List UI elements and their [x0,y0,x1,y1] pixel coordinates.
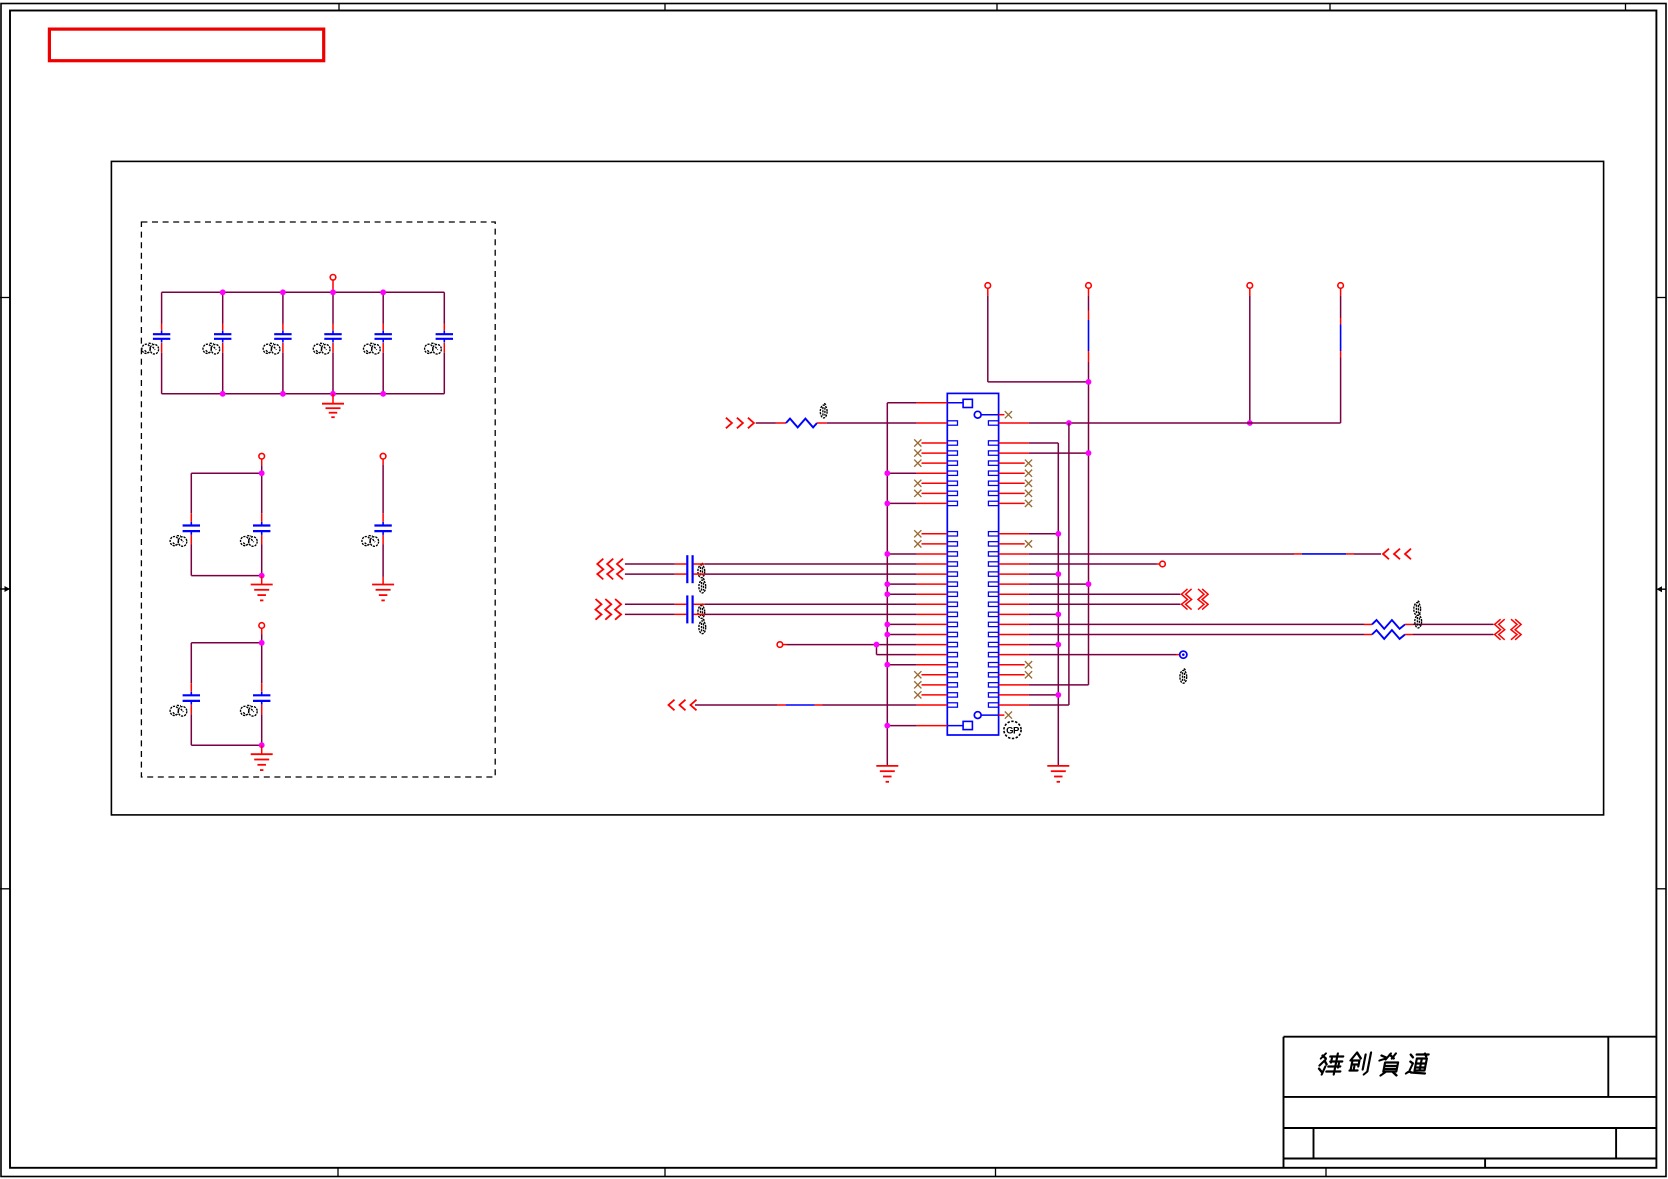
junction - bottom square pin [884,723,890,729]
bypass capacitor group outline (dashed) [141,222,495,777]
power port P1 (red circle) [330,275,336,281]
capacitor C9 [382,513,384,522]
wire - row443 right to bus1058 [999,442,1029,444]
junction - row423 x v1069 [1066,420,1072,426]
power port VCC port 4 (red circle) [1338,283,1344,289]
wire - R1 to connector pin (row 423 left) [827,422,917,424]
capacitor C14 (series, plates) [686,595,688,623]
wires - right pins tied to bus1058 (with junctions) [999,533,1029,535]
off-page double arrow pair (rows 624/634) [1495,619,1501,640]
wire - pair1 net B [625,573,675,575]
junction - pair top [259,470,265,476]
no-connect X bottom round pin [999,714,1005,716]
title block [1284,1036,1657,1038]
wire - cap group1 bottom bus [162,393,445,395]
wire - port1 rail [987,296,989,382]
wire - row584 right to v1088 [999,583,1029,585]
port (red circle) row 645 [777,642,783,648]
junction - jog [874,642,880,648]
wire - row705 right to v1069 corner [999,704,1029,706]
left ground bus (vertical) [886,403,888,766]
resistor R2 (0 ohm) [1372,620,1405,629]
no-connect X marks - left pins [922,442,948,444]
wire - pair bottom [191,744,261,746]
junction - port3 to row423 [1247,420,1253,426]
capacitor C5 [382,292,384,323]
power port (red circle) [259,623,265,629]
wire - row604 to off-page [999,603,1029,605]
power port (red circle) [259,453,265,459]
power port P3 (red circle) [380,453,386,459]
port (blue circled dot) row 655 [1180,651,1187,658]
wire - row554 to off-page [999,553,1029,555]
wire - row564 to port [999,563,1029,565]
resistor R1 (0 ohm) [786,419,817,428]
wire - port4 rail (with blue net segment) [1340,296,1342,318]
wire - pair2 net B to pin [694,613,706,615]
wire - row685 right to v1088 corner [999,684,1029,686]
capacitor C12/C13 labels [698,563,705,578]
junctions - cap group1 buses [220,289,226,295]
wire - R3 to off-page [1413,634,1494,636]
no-connect X marks - right pins rows 463-504 [999,462,1025,464]
resistor R2/R3 labels [1414,601,1421,616]
off-page arrow <<< (row 554) [1383,549,1389,560]
capacitor C12 (series, plates) [686,555,688,583]
wire - row453 right to v1088 [999,452,1029,454]
wire - row423 right run [999,422,1029,424]
svg-text:GP: GP [1006,726,1020,737]
wire - R2 to off-page [1413,623,1494,625]
left centering arrow [0,586,10,592]
power port VCC port 3 (red circle) [1247,283,1253,289]
junction - pair bottom [259,742,265,748]
sheet zone ticks [338,4,340,11]
wire - pair bottom [191,575,261,577]
wire - pair1 net B to pin [694,573,706,575]
capacitor C4 [332,292,334,323]
no-connect X top round pin [999,414,1005,416]
wire - cap group1 top bus [162,291,445,293]
GP marker [1004,721,1021,738]
wire - pair top [191,472,261,474]
off-page arrow <<< (row 705) [669,700,675,711]
wire - row594 to off-page [999,593,1029,595]
off-page double arrow pair (rows 594/604) [1182,589,1188,610]
resistor R3 (0 ohm) [1372,630,1405,639]
wire - port3 rail [1249,296,1251,423]
resistor R1 value label [820,403,827,418]
junction - rails meet [1086,379,1092,385]
ground - right bus [1047,765,1069,767]
right ground bus (vertical 1058) [1057,443,1059,766]
power port VCC port 2 (red circle) [1086,283,1092,289]
capacitor C1 [161,292,163,323]
wire - pair1 net A to pin [694,563,706,565]
connector J1 pin 1 (square) symbol [963,399,972,407]
port (red circle) row 564 [1160,561,1166,567]
connector J1 pin tabs (both columns) [947,421,957,425]
ground - cap group1 [332,394,334,404]
capacitor C11 [261,643,263,683]
ground - cap pair [261,745,263,754]
capacitor C6 [443,292,445,323]
wire - pair2 net A to pin [694,603,706,605]
wire - pair2 net A [625,603,675,605]
no-connect X marks - right pins rows 544/665/675 [999,543,1025,545]
capacitor C10 [190,643,192,683]
wire - port to pins (jog) [787,644,917,646]
ground - single cap [372,584,394,586]
port label row 655 [1180,669,1187,684]
ground - cap pair [261,576,263,585]
junction - pair top [259,640,265,646]
wire - input net to resistor [756,422,776,424]
connector J1 bottom square pin symbol [963,721,972,729]
connector J1 body [947,393,998,735]
capacitor C2 [222,292,224,323]
ground - left bus [876,765,898,767]
vertical net 1069 [1068,423,1070,705]
off-page double arrows (left pair 2) [596,599,602,620]
wire - row705 left segment [695,704,777,706]
wire - pair2 net B [625,613,675,615]
power port VCC port 1 (red circle) [985,283,991,289]
capacitor C7 [190,473,192,513]
wires - left pins tied to ground bus (with junctions) [887,472,916,474]
off-page double arrows (left pair 1) [597,559,603,580]
wire - row624 to resistor [999,623,1029,625]
wire - pair top [191,642,261,644]
capacitor C8 [261,473,263,513]
connector J1 pin 2 (round) symbol [974,411,981,418]
company name 緯創資通 [1318,1053,1429,1076]
wire - port2 rail (with blue net segment) [1088,296,1090,311]
wire - bottom square pin to left bus [887,725,916,727]
connector J1 bottom round pin symbol [974,712,981,719]
capacitor C3 [282,292,284,323]
wire - pin1 to left bus [887,402,916,404]
right centering arrow [1657,586,1667,592]
wire - pair1 net A [625,563,675,565]
off-page arrow >>> (input) [726,418,732,429]
red highlight box (empty title marker) [49,29,323,61]
capacitor C14/C15 labels [698,604,705,619]
junction - pair bottom [259,573,265,579]
wire - row655 to port [999,654,1029,656]
schematic boundary box [111,161,1603,815]
wire - row634 to resistor [999,634,1029,636]
